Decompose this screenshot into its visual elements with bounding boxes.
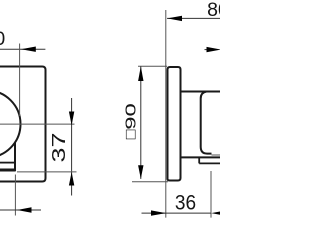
- side view: handle top silhouette: [181, 91, 221, 93]
- front view: horizontal centerline: [0, 123, 75, 125]
- dimension square-90 top arrow (up): [138, 66, 143, 81]
- dimension 36 line: [142, 212, 212, 214]
- dimension 36 right arrow: [211, 210, 226, 215]
- dimension 37 top arrow: [69, 112, 74, 126]
- side view: step bottom line: [199, 162, 220, 164]
- side view: wall extension line: [165, 10, 167, 218]
- dimension 37 bottom arrow: [69, 172, 74, 186]
- bottom dimension extension line: [14, 175, 16, 216]
- top dimension extension line: [19, 44, 21, 117]
- front view: lever grip upper line: [0, 162, 15, 164]
- dimension 36 right extension line: [210, 171, 212, 218]
- svg-text:37: 37: [49, 132, 69, 162]
- dimension 37 extension line: [17, 171, 77, 173]
- side view: handle front face: [201, 92, 212, 154]
- top dimension line: [0, 48, 45, 50]
- svg-text:80: 80: [207, 0, 220, 21]
- dimension 80 arrow (left): [167, 16, 182, 21]
- svg-text:90: 90: [123, 103, 140, 130]
- bottom dimension arrow (left): [17, 207, 32, 212]
- front view: lever grip right edge: [14, 143, 16, 172]
- svg-text:30: 30: [0, 28, 5, 50]
- dimension square-90 bottom extension line: [132, 181, 168, 183]
- side view: handle bottom silhouette: [182, 156, 221, 158]
- svg-text:□: □: [123, 129, 140, 139]
- dimension square-90 top extension line: [138, 65, 167, 67]
- top dimension arrow (left): [21, 47, 36, 52]
- svg-text:36: 36: [175, 190, 196, 214]
- right-pointing dimension arrow near top right: [205, 49, 209, 51]
- front view: escutcheon plate outline (cut at left edge): [0, 67, 46, 182]
- side view: thin line continuing from face bottom: [212, 154, 221, 156]
- dimension square-90 bottom arrow (down): [138, 165, 143, 179]
- dimension 37 line: [71, 98, 73, 196]
- bottom dimension line: [0, 209, 41, 211]
- dimension 36 left arrow: [151, 210, 166, 215]
- front view: handle circle (cut at left edge): [0, 91, 21, 158]
- side view: step vertical: [198, 157, 200, 163]
- front view: lever grip lower thick line: [0, 169, 16, 172]
- side view: plate cross-section: [168, 67, 181, 181]
- dimension square-90 line: [140, 66, 142, 178]
- dimension 80 line: [167, 17, 220, 19]
